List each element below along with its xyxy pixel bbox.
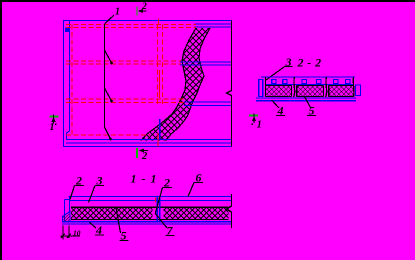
label 7 underline bbox=[166, 235, 175, 237]
section 2-2 top sheet line bbox=[261, 76, 355, 78]
svg-text:1 - 1: 1 - 1 bbox=[131, 172, 158, 186]
svg-text:2: 2 bbox=[141, 151, 148, 162]
section mark 1 right dot bbox=[252, 124, 254, 126]
section 2-2 right tab bbox=[356, 85, 361, 96]
plan outer top border bbox=[63, 20, 232, 22]
section 2-2 batten line bbox=[266, 84, 354, 86]
plan inner left stile line bbox=[69, 21, 71, 132]
section mark 1 right arrow bbox=[253, 114, 255, 124]
section 2-2 fastener 5 bbox=[334, 80, 338, 84]
dimension 10 tick right bbox=[67, 234, 71, 238]
section 1-1 top sheet line 1 bbox=[69, 196, 232, 198]
section 2-2 right black edge bbox=[352, 77, 355, 97]
label 4 leader bbox=[272, 100, 280, 108]
section 1-1 bottom sheet line 1 bbox=[62, 221, 232, 223]
section mark 2 bottom arrow bbox=[141, 150, 148, 152]
section 2-2 fastener 3 bbox=[302, 80, 306, 84]
leader 1 branch to rail A bbox=[105, 50, 112, 63]
section 2-2 hatch segment edge 2a bbox=[322, 86, 324, 97]
section 2-2 panel divider 2 bbox=[326, 77, 327, 97]
leader 1 branch to rail B bbox=[105, 88, 112, 101]
svg-text:2 - 2: 2 - 2 bbox=[297, 56, 322, 70]
label 2 left underline bbox=[75, 184, 85, 186]
plan middle rail B visible line 2 bbox=[184, 105, 232, 107]
section 2-2 left tab bbox=[259, 80, 263, 97]
section mark 1 left arrow bbox=[53, 115, 55, 124]
section 1-1 bolt red tick right bbox=[158, 198, 160, 202]
leader 1 top diagonal bbox=[105, 15, 115, 24]
label 4 underline (section 1-1) bbox=[95, 234, 104, 236]
plan hidden middle rail B dashed pair bbox=[66, 99, 184, 103]
section 2-2 hatch bottom edge bbox=[266, 96, 354, 98]
screenshot left border bbox=[0, 0, 2, 260]
section 1-1 top sheet line 2 bbox=[70, 200, 232, 202]
plan top rail visible line 1 bbox=[195, 23, 232, 25]
section mark 2 top green trace bbox=[136, 7, 138, 16]
svg-text:2: 2 bbox=[141, 2, 147, 12]
section 1-1 left cap inner vertical bbox=[69, 197, 71, 213]
section 1-1 insulation hatch bolt gap bbox=[153, 207, 164, 221]
section 1-1 bolt red tick left bbox=[155, 198, 157, 203]
section 2-2 fastener 4 bbox=[317, 80, 321, 84]
leader 1 branch dot A bbox=[110, 62, 113, 65]
section 2-2 hatch core bbox=[266, 86, 354, 97]
section 2-2 left black edge bbox=[265, 77, 267, 97]
section 1-1 right break edge bbox=[227, 194, 232, 228]
label 2 left leader bbox=[70, 186, 75, 200]
section 2-2 divider gap 1 bbox=[292, 85, 297, 97]
plan break band hatch bbox=[141, 28, 210, 141]
label 2 right underline bbox=[163, 187, 173, 189]
plan joist visible blue edge bbox=[159, 119, 161, 140]
plan middle rail A visible line 1 bbox=[180, 61, 232, 63]
plan outer left border bbox=[63, 20, 65, 147]
section mark 2 top arrow bbox=[140, 10, 147, 12]
plan middle rail B visible line 1 bbox=[184, 101, 232, 103]
section 2-2 divider gap 2 bbox=[324, 85, 329, 97]
leader 1 branch dot B bbox=[110, 100, 113, 103]
section 1-1 insulation hatch bbox=[71, 207, 229, 219]
plan hidden top rail dashed pair bbox=[66, 25, 196, 28]
label 4 underline bbox=[276, 115, 285, 117]
section 2-2 bottom sheet line 2 bbox=[256, 100, 356, 102]
svg-text:1: 1 bbox=[115, 7, 120, 18]
leader 1 end branch to bottom rail bbox=[105, 127, 111, 139]
section 2-2 fastener 2 bbox=[283, 80, 287, 84]
label 5 underline (section 1-1) bbox=[120, 240, 129, 242]
label 6 leader bbox=[188, 183, 194, 197]
section 2-2 bottom sheet line 1 bbox=[256, 97, 356, 99]
section mark 1 left dot bbox=[55, 124, 57, 126]
svg-text:1: 1 bbox=[257, 120, 262, 131]
section mark 1 left green trace bbox=[50, 116, 59, 118]
section 1-1 bolt blue line right bbox=[159, 197, 161, 222]
plan joist top red tick bbox=[158, 19, 160, 26]
label 4 leader (section 1-1) bbox=[89, 222, 96, 228]
plan hidden bottom rail dashed line bbox=[66, 134, 150, 136]
section 2-2 hatch top edge bbox=[266, 85, 354, 87]
plan joist bottom red line bbox=[157, 133, 159, 147]
plan break band left wavy edge bbox=[141, 28, 196, 141]
section 1-1 bottom sheet line 2 bbox=[62, 223, 232, 225]
plan top rail visible line 2 bbox=[195, 26, 232, 28]
label 5 leader (section 1-1) bbox=[116, 207, 121, 234]
plan right break edge with kink bbox=[227, 21, 232, 147]
screenshot top border bbox=[0, 0, 415, 2]
section 1-1 left cap top bbox=[65, 199, 70, 201]
label 3 underline (section 1-1) bbox=[95, 184, 104, 186]
plan outer bottom border bbox=[63, 146, 232, 148]
dimension 10 line bbox=[61, 235, 81, 237]
label 7 leader bbox=[155, 214, 167, 229]
section 2-2 fastener 1 bbox=[272, 80, 276, 84]
plan bottom rail line 1 bbox=[66, 139, 232, 141]
plan hidden joist dashed vertical left bbox=[157, 25, 159, 105]
plan hidden left stile dashed vertical bbox=[71, 25, 73, 136]
plan bottom rail line 2 bbox=[66, 142, 232, 144]
label 6 underline bbox=[194, 182, 203, 184]
plan joist centre line segment bbox=[159, 70, 161, 98]
section 2-2 hatch segment edge 1b bbox=[296, 86, 298, 97]
label 5 leader bbox=[305, 97, 311, 108]
leader 1 end dot bbox=[109, 138, 112, 141]
label 5 underline bbox=[307, 115, 316, 117]
section 1-1 insulation top edge bbox=[71, 206, 229, 208]
svg-text:10: 10 bbox=[73, 229, 81, 238]
plan middle rail A visible line 2 bbox=[180, 64, 232, 66]
section 2-2 fastener 6 bbox=[346, 80, 350, 84]
section 1-1 left cap outer vertical bbox=[64, 200, 66, 222]
dimension 10 extension line right bbox=[68, 226, 70, 239]
plan hidden middle rail A dashed pair bbox=[66, 61, 181, 64]
section 2-2 hatch segment edge 2b bbox=[328, 86, 330, 97]
plan hidden joist dashed vertical right bbox=[162, 25, 164, 105]
section 1-1 left cap hatched foot bbox=[63, 212, 71, 222]
section 2-2 panel divider 1 bbox=[294, 77, 295, 97]
plan break band right wavy edge bbox=[166, 28, 210, 141]
label 3 leader (section 1-1) bbox=[89, 186, 96, 203]
label 2 right leader bbox=[155, 188, 162, 214]
svg-text:1: 1 bbox=[50, 122, 55, 133]
leader 1 vertical bbox=[104, 24, 106, 127]
section 1-1 insulation bottom edge bbox=[71, 219, 229, 221]
section 2-2 hatch segment edge 1a bbox=[290, 86, 292, 97]
section 1-1 bolt blue line left bbox=[156, 197, 158, 222]
plan corner block bbox=[65, 28, 70, 33]
label 3 underline bbox=[284, 66, 293, 68]
label 3 leader bbox=[266, 67, 284, 80]
plan inner stile bottom jog bbox=[67, 131, 70, 140]
dimension 10 extension line left bbox=[62, 226, 64, 240]
section mark 2 bottom green trace bbox=[136, 148, 138, 158]
section mark 1 right green trace bbox=[249, 115, 258, 117]
dimension 10 tick left bbox=[61, 234, 65, 238]
